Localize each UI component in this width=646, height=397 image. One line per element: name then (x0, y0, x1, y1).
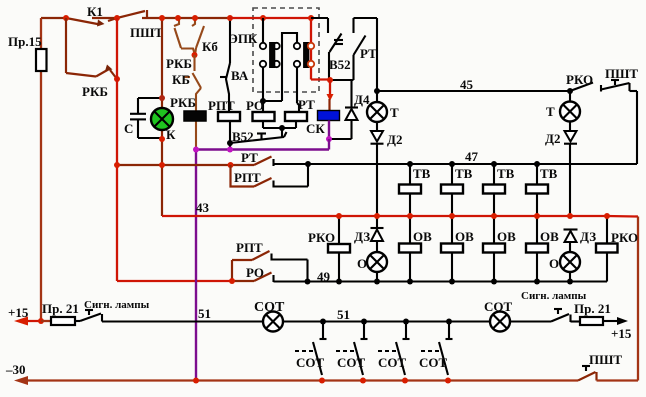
node -30c (360, 378, 366, 384)
contact СОТ 4 (419, 319, 453, 376)
wire 51 (102, 306, 350, 322)
node X (47 left junction) (305, 161, 311, 167)
svg-text:+15: +15 (611, 326, 632, 341)
lamp СОТ (right) (484, 299, 513, 332)
svg-text:ВА: ВА (231, 68, 249, 83)
wire 47 (274, 149, 638, 164)
wire -30 with arrow (5, 362, 578, 385)
coil РКО (left) (308, 216, 350, 282)
wire 51 mid (283, 320, 490, 322)
contact Кб (192, 18, 218, 55)
node 49e (567, 279, 573, 285)
svg-text:РО: РО (246, 265, 264, 280)
svg-text:ПШТ: ПШТ (605, 66, 638, 81)
electromagnet СК (blue) (306, 111, 340, 137)
wire СК bottom to purple node (328, 121, 330, 140)
svg-text:РКБ: РКБ (166, 56, 192, 71)
svg-text:43: 43 (196, 200, 210, 215)
wire lamp К branch vertical (161, 18, 163, 216)
svg-text:СОТ: СОТ (378, 355, 407, 370)
resistor РКБ (black) (170, 95, 206, 121)
red arrow into СК (327, 80, 334, 111)
node 43e (491, 213, 497, 219)
wire connector-2 lead to РТ coil (297, 67, 299, 112)
wire +15 right with arrow (603, 317, 632, 341)
svg-text:РПТ: РПТ (236, 240, 263, 255)
svg-text:ТВ: ТВ (540, 166, 558, 181)
node T1b (wire 45 right end) (567, 88, 573, 94)
svg-text:Пр.15: Пр.15 (8, 34, 42, 49)
svg-text:Т: Т (546, 104, 555, 119)
node E (capacitor top tap) (159, 95, 165, 101)
node Z (+15 / left vertical) (38, 318, 44, 324)
svg-text:РТ: РТ (360, 46, 377, 61)
wire РКБ branch vertical (65, 18, 67, 73)
wire ЭПК connector-1 top lead (262, 18, 264, 43)
coil РКО (right) (596, 216, 638, 282)
wire orange from КБ to purple node (196, 88, 201, 150)
contact РО (lower pair) (232, 265, 274, 282)
wire РО/РТ coil bottoms (263, 121, 296, 137)
purple bus (196, 139, 329, 380)
fuse Пр.15 (8, 34, 47, 71)
contact ПШТ (top right) (601, 66, 638, 92)
node 47a (407, 161, 413, 167)
node 43b (374, 213, 380, 219)
contact В52 (coil side) (230, 129, 287, 144)
node 49g (336, 279, 342, 285)
contact РКБ (upper left) (66, 65, 117, 100)
svg-text:КБ: КБ (172, 72, 190, 87)
node C (РКБ to red vertical) (114, 76, 120, 82)
svg-text:В52: В52 (329, 57, 351, 72)
ЭПК connector 2 red pins (308, 43, 314, 67)
svg-text:РКО: РКО (566, 72, 593, 87)
contact СОТ 1 (295, 319, 327, 376)
svg-text:ОВ: ОВ (455, 229, 474, 244)
lamp О (right) (549, 252, 580, 282)
svg-text:ТВ: ТВ (413, 166, 431, 181)
svg-text:Д4: Д4 (354, 92, 370, 107)
node 47b (449, 161, 455, 167)
svg-text:ДЗ: ДЗ (354, 229, 370, 244)
node 49d (534, 279, 540, 285)
node V (lamp branch / wire 165) (159, 162, 165, 168)
svg-text:–30: –30 (5, 362, 26, 377)
coil РО (246, 98, 275, 121)
svg-text:К1: К1 (87, 4, 103, 19)
column ТВ/ОВ 4 (526, 164, 559, 282)
contact КБ (172, 55, 201, 88)
svg-text:45: 45 (460, 77, 474, 92)
svg-text:СОТ: СОТ (254, 300, 285, 315)
node M (РО top tap) (260, 98, 266, 104)
svg-text:В52: В52 (232, 129, 254, 144)
node 43a (336, 213, 342, 219)
wire 43 (162, 200, 607, 216)
node 49c (491, 279, 497, 285)
node -30b (319, 378, 325, 384)
wire red through ЭПК to СК (230, 18, 330, 80)
node -30d (402, 378, 408, 384)
contact СОТ 3 (378, 319, 410, 376)
wire 51 right (510, 320, 551, 322)
svg-text:ДЗ: ДЗ (580, 229, 596, 244)
wire 49 (274, 269, 571, 284)
column ТВ/ОВ 2 (441, 164, 474, 282)
svg-text:ПШТ: ПШТ (589, 352, 622, 367)
svg-text:К: К (166, 127, 176, 142)
svg-text:ПШТ: ПШТ (130, 25, 163, 40)
node 47d (534, 161, 540, 167)
svg-text:ОВ: ОВ (540, 229, 559, 244)
lamp К (green) (151, 108, 176, 142)
svg-text:СОТ: СОТ (419, 355, 448, 370)
node O (РО/РТ bottoms junction) (279, 125, 285, 131)
contact ВА (220, 18, 249, 112)
column ТВ/ОВ 1 (399, 164, 432, 282)
svg-text:РО: РО (246, 98, 264, 113)
svg-text:Т: Т (390, 105, 399, 120)
svg-text:ТВ: ТВ (497, 166, 515, 181)
svg-text:ОВ: ОВ (413, 229, 432, 244)
contact К1 (66, 4, 117, 27)
fuse Пр.21 (left) (41, 301, 79, 325)
node F (capacitor bottom tap) (159, 136, 165, 142)
svg-text:РКО: РКО (308, 230, 335, 245)
node P (red feed to СК) (327, 77, 333, 83)
wire 45 (377, 77, 570, 92)
svg-text:С: С (124, 121, 133, 136)
contact РКБ with Кб (converging pair) (166, 18, 195, 71)
svg-text:СК: СК (306, 121, 325, 136)
diode Д3 (right) (564, 229, 597, 252)
lamp Т (left) (367, 102, 399, 122)
coil РПТ (208, 98, 240, 121)
svg-text:РКО: РКО (611, 230, 638, 245)
svg-text:О: О (357, 256, 367, 271)
node 49b (449, 279, 455, 285)
node Q (СК/Д4 junction, purple) (326, 136, 332, 142)
column ТВ/ОВ 3 (483, 164, 516, 282)
lamp О (left) (357, 252, 387, 282)
node S (purple / РПТ coil junction) (227, 147, 233, 153)
svg-text:СОТ: СОТ (484, 299, 513, 314)
wire 43 right extension to -30 (607, 216, 638, 381)
node B (junction top bus / ПШТ) (114, 15, 120, 21)
contact В52 (top) (311, 18, 351, 80)
wire lamp Т-1 vertical (376, 18, 378, 102)
svg-text:РПТ: РПТ (208, 98, 235, 113)
node -30e (445, 378, 451, 384)
wire +15 left with arrow (8, 305, 41, 326)
node H (Кб top) (192, 15, 198, 21)
svg-text:О: О (549, 256, 559, 271)
svg-text:РКБ: РКБ (170, 95, 196, 110)
dashed box ЭПК (229, 8, 319, 92)
svg-text:СОТ: СОТ (296, 355, 325, 370)
node R (purple / orange junction) (193, 147, 199, 153)
node -30a (193, 378, 199, 384)
svg-text:РПТ: РПТ (234, 170, 261, 185)
svg-text:РТ: РТ (298, 97, 315, 112)
wire main red vertical (ПШТ to РО feed) (117, 18, 232, 281)
wire right drop to 47 (636, 91, 638, 164)
svg-text:47: 47 (465, 149, 479, 164)
node 47c (491, 161, 497, 167)
node D (top bus / lamp К branch) (159, 15, 165, 21)
svg-text:51: 51 (337, 307, 350, 322)
wire В52/РТ arms to СК and Д4 (329, 79, 354, 81)
node T1a (wire 45 left end) (374, 88, 380, 94)
diode Д3 (left) (354, 228, 384, 252)
node 43g (567, 213, 573, 219)
contact РТ (top) (354, 18, 378, 80)
node 43c (407, 213, 413, 219)
node 49a (407, 279, 413, 285)
svg-text:49: 49 (317, 269, 331, 284)
node K (red entering box) (260, 15, 266, 21)
node I (РКБ/Кб convergence) (192, 52, 198, 58)
node G (РКБ top) (175, 15, 181, 21)
svg-text:ОВ: ОВ (497, 229, 516, 244)
contact ПШТ (top) (117, 10, 163, 40)
fuse Пр.21 (right) (574, 301, 611, 325)
svg-text:ЭПК: ЭПК (229, 31, 258, 46)
wire Д4 bottom to node Q (330, 138, 352, 140)
svg-text:Пр. 21: Пр. 21 (42, 301, 79, 316)
contact СОТ 2 (336, 319, 368, 376)
coil РТ (285, 97, 315, 121)
svg-text:+15: +15 (8, 305, 29, 320)
svg-text:51: 51 (198, 306, 211, 321)
svg-text:ТВ: ТВ (455, 166, 473, 181)
contact РТ (middle pair) (117, 150, 274, 166)
wire О-right to РКО-right bottom (570, 280, 607, 282)
diode Д2 (left) (371, 122, 403, 228)
svg-text:РТ: РТ (241, 150, 258, 165)
ЭПК connector 2 (plug) (294, 43, 309, 68)
node U (red vert / wire 165) (114, 162, 120, 168)
ЭПК connector 1 (plug) (260, 43, 280, 68)
svg-text:Пр. 21: Пр. 21 (574, 301, 611, 316)
node 43f (534, 213, 540, 219)
node N (В52 pivot) (227, 140, 233, 146)
svg-text:РКБ: РКБ (82, 84, 108, 99)
svg-text:СОТ: СОТ (337, 355, 366, 370)
diode Д2 (right) (545, 122, 577, 217)
node A (junction top bus / К1) (63, 15, 69, 21)
node 43h (604, 213, 610, 219)
contact Сигн. лампы (right) (521, 290, 587, 322)
wire ЭПК bracket to connector 2 (282, 33, 297, 101)
wire top bus left (dark red) (41, 17, 230, 19)
lamp СОТ (left) (254, 300, 285, 332)
contact РПТ (lower pair) (232, 240, 308, 282)
node 49f (305, 279, 311, 285)
svg-text:Д2: Д2 (387, 132, 402, 147)
capacitor С (124, 98, 162, 138)
svg-text:Кб: Кб (202, 39, 218, 54)
wire РПТ coil bottom to purple bus (229, 121, 231, 150)
node 43d (449, 213, 455, 219)
node L (red at box right) (308, 15, 314, 21)
contact Сигн. лампы (left) (75, 299, 150, 322)
node Y (РПТ/РО elbow) (229, 278, 235, 284)
svg-text:Сигн. лампы: Сигн. лампы (84, 299, 150, 311)
wire vertical from top bus to fuse Пр.15 and +15 line (40, 18, 42, 321)
diode Д4 (345, 80, 370, 139)
contact РПТ (middle pair) (231, 164, 309, 188)
svg-text:Д2: Д2 (545, 131, 560, 146)
contact ПШТ (bottom) (578, 352, 638, 381)
node W (РПТ elbow) (228, 162, 234, 168)
node 49h (374, 279, 380, 285)
contact РКО (top right) (566, 72, 593, 91)
lamp Т (right) (546, 91, 580, 122)
node J (top bus / ВА) (227, 15, 233, 21)
wire ЭПК connector-1 bottom lead to РО coil (263, 67, 282, 112)
